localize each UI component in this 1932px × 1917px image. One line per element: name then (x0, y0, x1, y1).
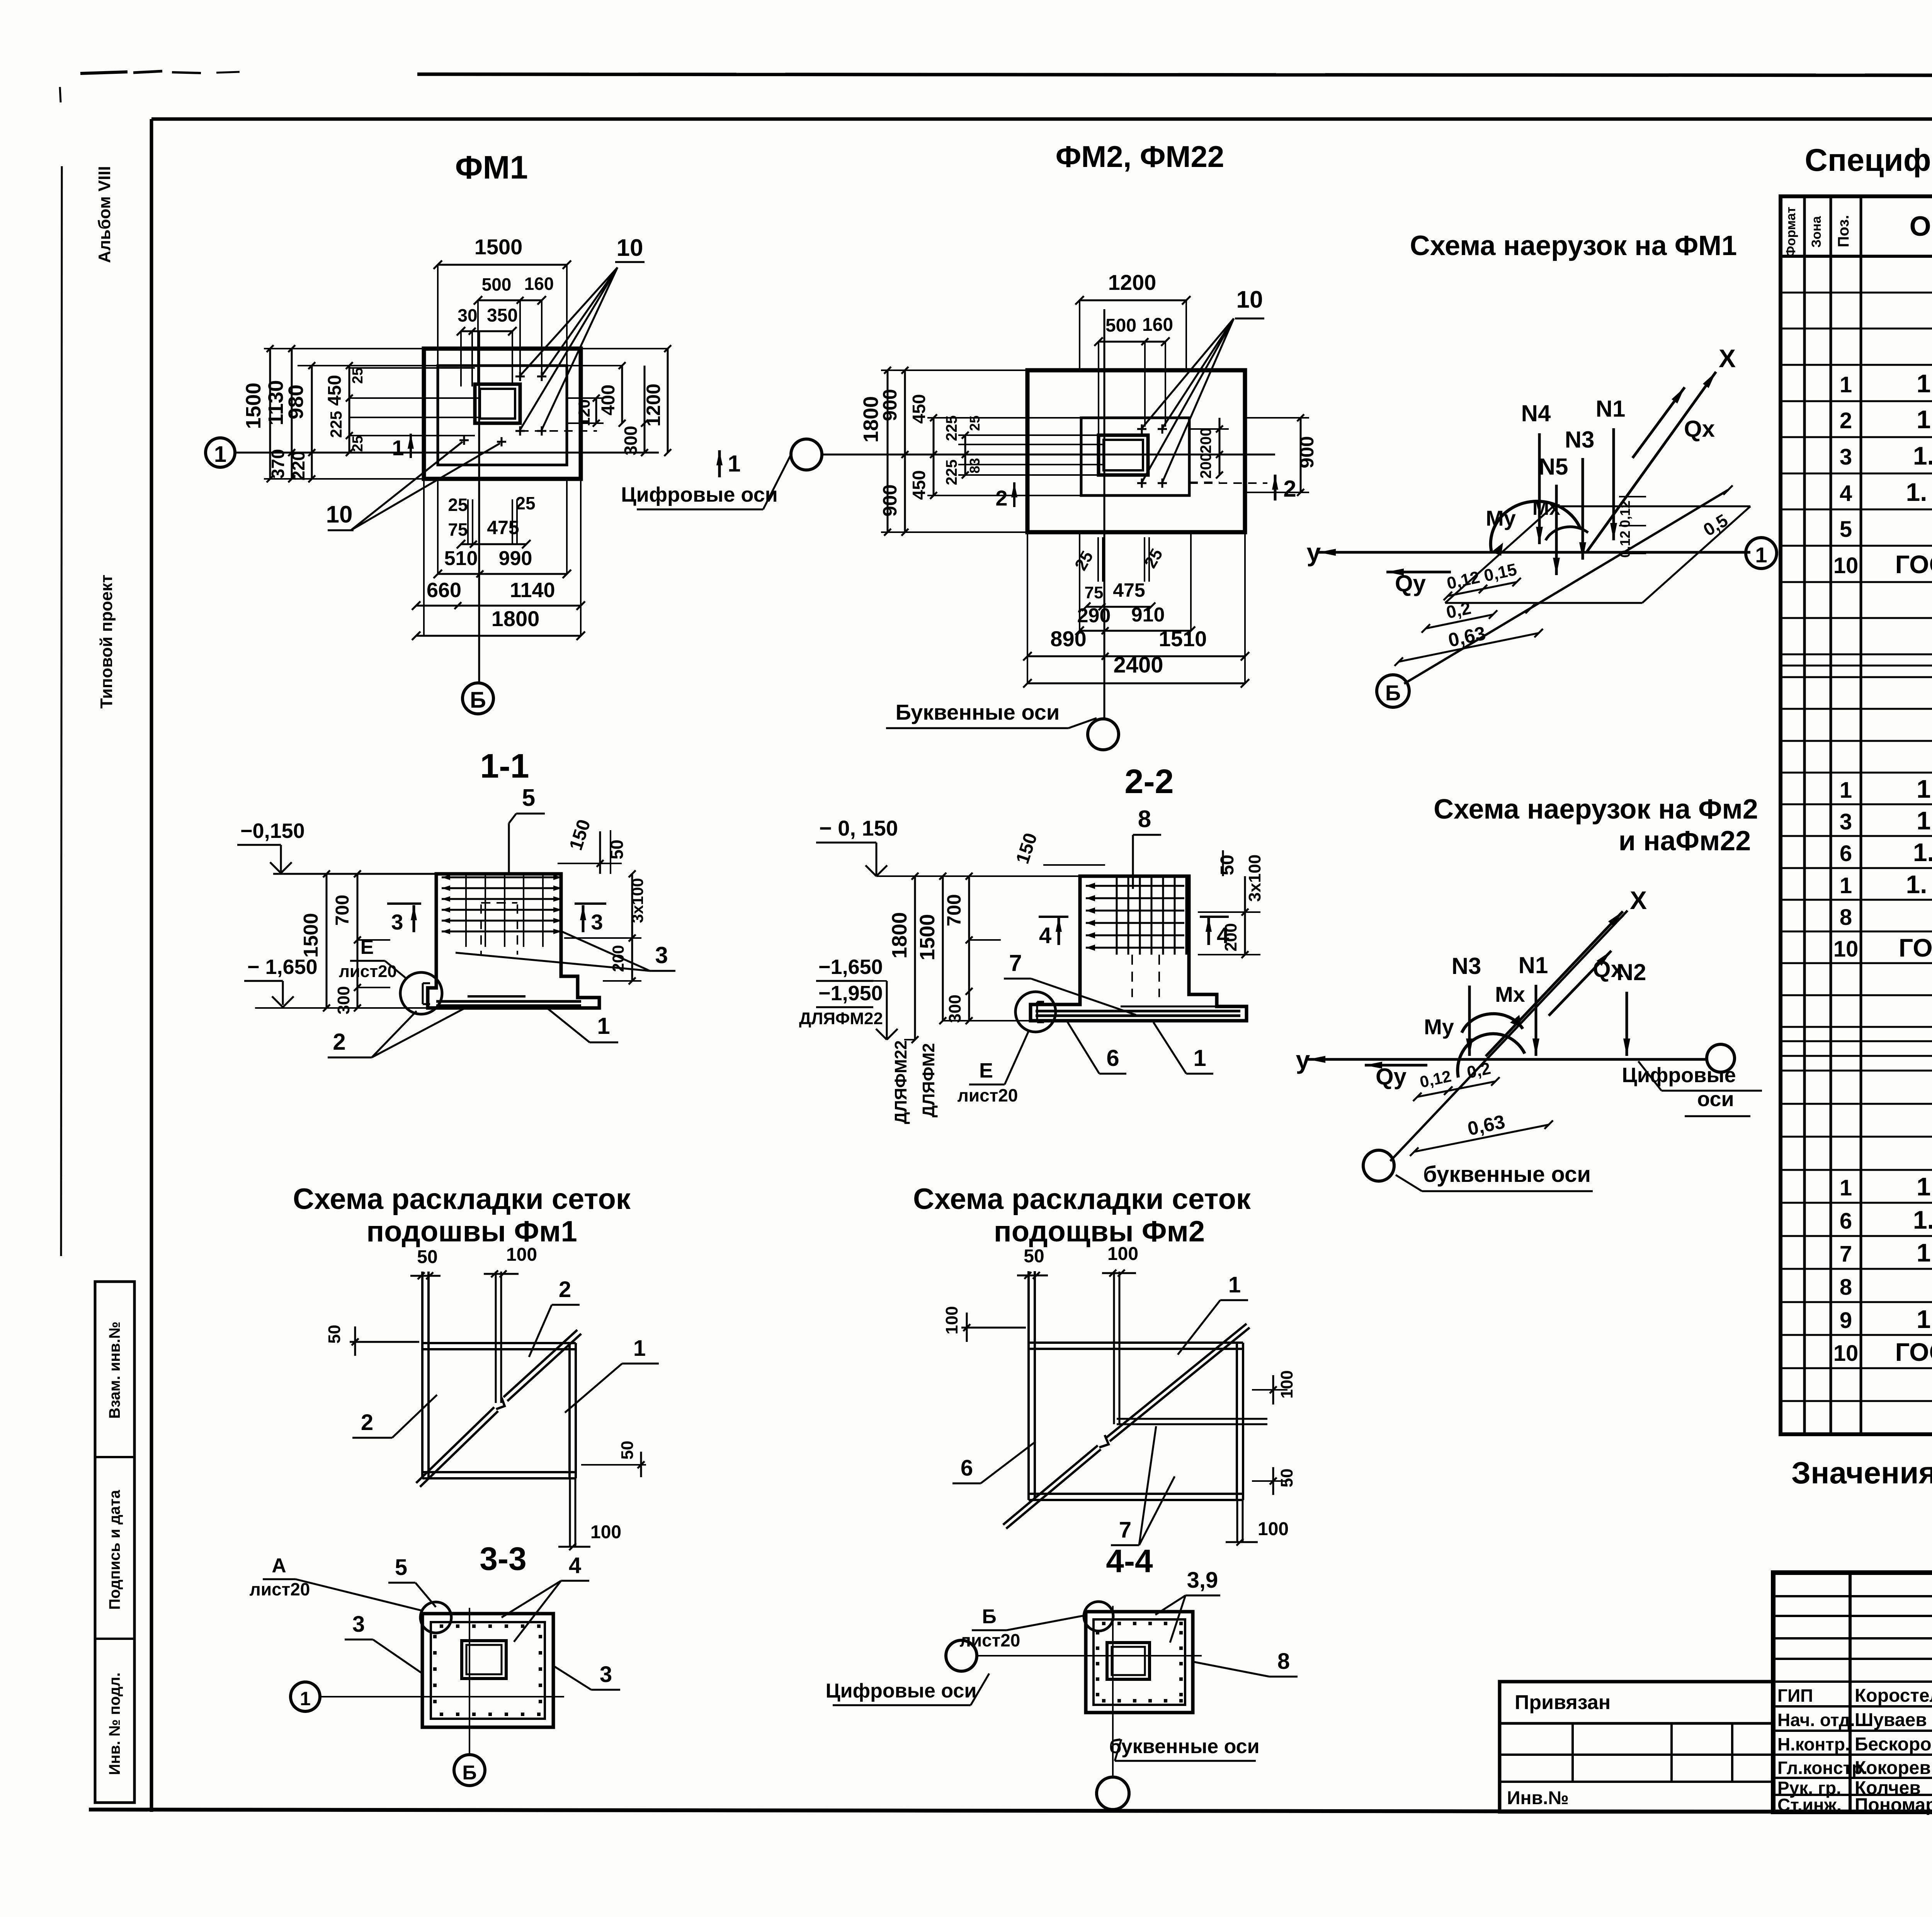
title block top grid rows (1773, 1595, 1932, 1597)
svg-text:225: 225 (327, 411, 345, 438)
svg-text:1.410-3 вып.1: 1.410-3 вып.1 (1917, 806, 1932, 835)
svg-text:6: 6 (1840, 1209, 1852, 1234)
bottom-left rotated stamp table (95, 1282, 134, 1803)
svg-text:−1,950: −1,950 (818, 982, 883, 1005)
svg-text:1: 1 (1840, 1175, 1852, 1200)
FM2 bottom dim 890 1510 (1027, 655, 1245, 657)
scheme1 Y axis line (1318, 551, 1750, 554)
mesh FM1 middle vertical bar (sheet 2) (495, 1272, 497, 1403)
svg-text:2: 2 (333, 1029, 345, 1055)
mesh FM2 diagonal bar (1006, 1449, 1101, 1529)
scheme1 force N4 (1538, 433, 1541, 544)
FM1 footing outer rect (424, 349, 581, 479)
svg-text:Альбом VIII: Альбом VIII (95, 166, 114, 263)
svg-text:450: 450 (909, 470, 929, 500)
svg-text:Шуваев: Шуваев (1855, 1710, 1927, 1730)
svg-text:1130: 1130 (264, 380, 287, 425)
FM2 left dims (887, 370, 889, 532)
mesh FM1 diagonal bar (420, 1411, 498, 1487)
mesh FM1 top dim 100 (484, 1273, 519, 1275)
svg-text:− 0, 150: − 0, 150 (819, 816, 898, 840)
svg-text:буквенные оси: буквенные оси (1109, 1735, 1259, 1758)
FM2 top dim 1200 (1080, 300, 1186, 301)
mesh FM1 left dim 50 (350, 1341, 419, 1343)
svg-text:1. 410-3 вып.1: 1. 410-3 вып.1 (1913, 1205, 1932, 1234)
svg-text:Б: Б (1385, 681, 1401, 705)
svg-text:Нач. отд.: Нач. отд. (1777, 1710, 1855, 1730)
FM1 bottom dim 660 1140 (416, 605, 581, 607)
scheme2 Qy arrow (1365, 1064, 1427, 1067)
section 2-2 dashed bars below (1131, 955, 1133, 997)
svg-text:1510: 1510 (1159, 627, 1207, 651)
scheme2 force N2 (1626, 992, 1628, 1056)
FM2 bottom dim 75 475 (1086, 606, 1151, 608)
scheme1 plot parallelogram lines (1553, 506, 1750, 507)
svg-text:Цифровые оси: Цифровые оси (621, 483, 778, 506)
svg-text:1: 1 (1228, 1272, 1241, 1297)
svg-text:200: 200 (1197, 428, 1214, 454)
svg-text:890: 890 (1050, 627, 1086, 651)
section 1-1 bottom mesh double lines (436, 1000, 581, 1003)
svg-text:510: 510 (444, 547, 478, 570)
svg-text:ФМ2, ФМ22: ФМ2, ФМ22 (1056, 140, 1225, 174)
section 3-3 vertical axis (469, 1608, 470, 1755)
svg-text:N3: N3 (1565, 427, 1595, 453)
section 2-2 cut marks 4 (1058, 917, 1060, 945)
svg-text:Цифровые оси: Цифровые оси (826, 1680, 977, 1702)
svg-text:лист20: лист20 (957, 1085, 1018, 1105)
FM1 bottom dim 510 990 (438, 573, 567, 575)
FM1 bottom dims 25 25 (467, 499, 469, 544)
FM1 footing inner step rect (438, 366, 567, 465)
svg-text:1: 1 (392, 436, 404, 460)
scheme1 force N1 (1612, 428, 1615, 540)
svg-text:1.410-3 вып.1: 1.410-3 вып.1 (1917, 1305, 1932, 1333)
svg-text:X: X (1719, 344, 1736, 373)
scheme2 Y axis (1308, 1058, 1708, 1061)
svg-text:980: 980 (284, 385, 308, 419)
svg-text:2400: 2400 (1113, 652, 1163, 678)
svg-text:Спецификация фундаментов Ф: Спецификация фундаментов ФМ1, ФМ2 ФМ22 (1805, 143, 1932, 178)
svg-text:6: 6 (1106, 1045, 1119, 1071)
FM2 bottom dims 25 25 (1097, 537, 1099, 582)
svg-text:2: 2 (1283, 476, 1296, 502)
svg-text:1. 410 - 3 вып.1: 1. 410 - 3 вып.1 (1906, 478, 1932, 506)
section 3-3 stud dots (440, 1624, 443, 1628)
svg-text:Схема раскладки сеток: Схема раскладки сеток (293, 1183, 631, 1216)
svg-text:220: 220 (288, 451, 308, 481)
svg-text:8: 8 (1277, 1649, 1290, 1674)
section 4-4 detail circle B (1084, 1602, 1113, 1631)
svg-text:N3: N3 (1452, 953, 1481, 979)
svg-text:N4: N4 (1521, 400, 1551, 426)
section 2-2 body outline (1031, 876, 1247, 1021)
FM1 axis circle 1 (206, 438, 235, 467)
svg-text:Привязан: Привязан (1515, 1691, 1611, 1714)
FM2 footing outer rect (1027, 370, 1245, 532)
mesh FM2 right dim 50 (1252, 1480, 1287, 1482)
signature rows (1773, 1705, 1932, 1708)
svg-text:7: 7 (1119, 1517, 1131, 1542)
svg-text:0,12: 0,12 (1617, 501, 1633, 528)
svg-text:1: 1 (214, 442, 226, 467)
svg-text:1. 410-3 вып.1: 1. 410-3 вып.1 (1913, 441, 1932, 470)
svg-text:9: 9 (1840, 1308, 1852, 1333)
svg-text:Схема наерузок на ФМ1: Схема наерузок на ФМ1 (1410, 230, 1737, 261)
svg-text:225: 225 (943, 460, 960, 485)
svg-text:3х100: 3х100 (628, 878, 646, 923)
mesh FM1 top dim 50 (410, 1275, 440, 1277)
FM2 column box (1099, 435, 1148, 475)
FM2 bottom dim 2400 (1027, 683, 1245, 684)
svg-text:660: 660 (427, 579, 461, 602)
svg-text:Б: Б (470, 688, 486, 713)
svg-text:1200: 1200 (643, 383, 664, 426)
FM1 left dims (269, 349, 271, 479)
svg-text:25: 25 (350, 368, 366, 384)
svg-text:50: 50 (618, 1441, 637, 1460)
mesh FM1 bottom dim 100 (569, 1478, 571, 1547)
FM2 vertical axis (1104, 309, 1105, 719)
svg-text:N2: N2 (1617, 959, 1646, 985)
scheme1 B circle (1377, 675, 1409, 707)
FM2 bottom axis circle (1088, 719, 1119, 750)
svg-text:3: 3 (352, 1612, 365, 1637)
svg-text:1500: 1500 (474, 235, 523, 259)
scheme2 dims (1417, 1081, 1495, 1097)
svg-text:50: 50 (1277, 1469, 1296, 1488)
svg-text:1.410- 3 вып.1: 1.410- 3 вып.1 (1913, 838, 1932, 867)
frame top line 1 (417, 74, 1932, 76)
FM1 axis circle B (463, 683, 493, 714)
svg-text:подощвы Фм2: подощвы Фм2 (994, 1215, 1205, 1248)
svg-text:1.410-3 вып.1: 1.410-3 вып.1 (1917, 1172, 1932, 1201)
svg-text:Гл.констр.: Гл.констр. (1777, 1758, 1867, 1778)
svg-text:7: 7 (1840, 1241, 1852, 1267)
title block outer (1773, 1573, 1932, 1812)
FM1 inner horizontal guide lines (349, 367, 475, 369)
svg-text:25: 25 (350, 436, 366, 452)
title block verticals (1849, 1573, 1852, 1812)
FM2 top dim 500 160 (1099, 341, 1165, 343)
section 2-2 bottom mesh lines (1036, 1010, 1240, 1013)
svg-text:3: 3 (600, 1662, 612, 1687)
svg-text:10: 10 (1833, 553, 1859, 578)
svg-text:50: 50 (1024, 1246, 1044, 1267)
spec table header row line (1781, 255, 1932, 258)
svg-text:1.410-3 вып.1: 1.410-3 вып.1 (1917, 405, 1932, 434)
frame top line 2 (151, 117, 1932, 121)
svg-text:3,9: 3,9 (1187, 1568, 1218, 1593)
svg-text:350: 350 (487, 305, 518, 326)
svg-text:75: 75 (448, 519, 468, 540)
svg-text:50: 50 (325, 1325, 344, 1344)
mesh FM2 inner vertical bar (1113, 1272, 1115, 1424)
svg-text:3: 3 (391, 910, 403, 934)
svg-text:7: 7 (1009, 950, 1022, 976)
svg-text:10: 10 (326, 501, 353, 528)
svg-text:8: 8 (1840, 905, 1852, 930)
svg-text:Схема наерузок на Фм2: Схема наерузок на Фм2 (1434, 794, 1758, 825)
svg-text:100: 100 (1107, 1244, 1138, 1264)
svg-text:700: 700 (332, 895, 353, 926)
svg-text:Цифровые: Цифровые (1622, 1064, 1736, 1087)
svg-text:3: 3 (655, 942, 668, 968)
svg-text:300: 300 (946, 994, 964, 1023)
svg-text:2: 2 (559, 1277, 571, 1302)
svg-text:990: 990 (499, 547, 532, 570)
mesh FM2 right dim 100 (1252, 1389, 1287, 1391)
svg-text:83: 83 (967, 458, 983, 473)
svg-text:50: 50 (1217, 855, 1238, 875)
svg-text:−1,650: −1,650 (818, 955, 883, 979)
svg-text:100: 100 (942, 1306, 961, 1334)
svg-text:290: 290 (1077, 604, 1111, 627)
section 2-2 detail circle E (1015, 992, 1056, 1032)
section 2-2 left dims 700 300 (968, 876, 970, 1021)
scheme1 Qy arrow (1386, 571, 1451, 574)
svg-text:у: у (1296, 1045, 1310, 1074)
svg-text:370: 370 (268, 449, 288, 479)
svg-text:160: 160 (524, 274, 554, 294)
svg-text:подошвы Фм1: подошвы Фм1 (366, 1215, 577, 1248)
frame bottom line (89, 1810, 1932, 1813)
scheme2 Qx arrow (1549, 951, 1611, 1016)
scheme2 My arc (1458, 1034, 1525, 1078)
svg-text:900: 900 (1296, 436, 1318, 468)
mesh FM2 rect (sheet 1) (1029, 1348, 1243, 1350)
svg-text:900: 900 (879, 389, 901, 421)
svg-text:Пономарев: Пономарев (1855, 1795, 1932, 1815)
svg-text:Типовой проект: Типовой проект (97, 575, 116, 709)
svg-text:4: 4 (569, 1553, 581, 1578)
svg-text:1500: 1500 (300, 913, 322, 958)
FM1 anchor bolt marks (515, 376, 525, 378)
FM2 axis circle left (791, 439, 822, 470)
svg-text:Взам. инв.№: Взам. инв.№ (106, 1321, 123, 1418)
svg-text:1: 1 (597, 1013, 610, 1039)
FM1 column box (475, 384, 520, 423)
svg-text:1: 1 (1840, 778, 1852, 803)
section 1-1 left dims 700 300 (357, 874, 359, 1008)
FM1 right section mark arrow 1 (718, 450, 721, 477)
svg-text:А: А (272, 1554, 286, 1577)
svg-text:− 1,650: − 1,650 (247, 955, 318, 979)
FM1 bottom dim 75 475 (461, 543, 526, 545)
svg-text:Е: Е (361, 936, 374, 958)
section 2-2 left dims 1800 1500 (914, 876, 916, 1040)
svg-text:Н.контр.: Н.контр. (1777, 1734, 1850, 1754)
FM2 anchor bolt marks (1137, 428, 1146, 430)
svg-text:ГОСТ 24379.1- 80: ГОСТ 24379.1- 80 (1895, 550, 1932, 579)
svg-text:Обозначение: Обозначение (1910, 211, 1932, 242)
scheme2 force N1 (1535, 985, 1537, 1056)
svg-text:Зона: Зона (1809, 216, 1824, 248)
svg-text:10: 10 (1833, 1341, 1859, 1366)
svg-text:8: 8 (1138, 806, 1151, 833)
svg-text:Поз.: Поз. (1835, 215, 1852, 247)
svg-text:ДЛЯФМ22: ДЛЯФМ22 (891, 1040, 910, 1124)
section 4-4 axis circle bottom (1097, 1777, 1129, 1810)
svg-text:3х100: 3х100 (1245, 855, 1264, 902)
svg-text:1: 1 (1840, 873, 1852, 898)
FM2 horizontal axis (822, 454, 1275, 456)
svg-text:1: 1 (1840, 372, 1852, 397)
svg-text:и наФм22: и наФм22 (1619, 826, 1751, 856)
svg-text:30: 30 (457, 305, 477, 325)
section 3-3 axis circle B bottom (454, 1755, 485, 1786)
svg-text:Му: Му (1486, 506, 1516, 530)
svg-text:10: 10 (1236, 286, 1263, 313)
svg-text:1: 1 (300, 1688, 311, 1709)
FM1 top dim 500 160 (478, 300, 542, 301)
section 4-4 outer rect (1086, 1612, 1193, 1713)
privyazan table (1500, 1682, 1773, 1812)
section 1-1 mesh vertical bars (465, 874, 467, 947)
svg-text:ДЛЯФМ22: ДЛЯФМ22 (799, 1009, 883, 1028)
section 3-3 column hole (462, 1641, 506, 1679)
scheme1 X axis arrow (1586, 372, 1716, 553)
svg-text:3-3: 3-3 (480, 1541, 526, 1577)
section 4-4 horizontal axis (977, 1655, 1202, 1657)
svg-text:75: 75 (1085, 583, 1104, 602)
svg-text:Му: Му (1424, 1015, 1454, 1039)
svg-text:1: 1 (728, 451, 740, 477)
svg-text:160: 160 (1142, 315, 1173, 335)
scheme1 My moment arc (1491, 501, 1580, 552)
scheme2 right circle (1707, 1044, 1735, 1072)
mesh FM2 top dim 100 (1102, 1272, 1136, 1274)
FM2 section mark 2 inside (1013, 482, 1015, 507)
svg-text:500: 500 (482, 274, 512, 295)
scheme2 diagonal axis (1390, 911, 1628, 1161)
svg-text:475: 475 (487, 517, 519, 538)
scheme2 force N3 (1468, 986, 1471, 1056)
svg-text:25: 25 (448, 495, 468, 515)
scheme1 diagonal axis to B (1404, 490, 1728, 684)
svg-text:ГИП: ГИП (1777, 1685, 1813, 1706)
FM1 section mark 1 inside plan (410, 434, 412, 458)
svg-text:50: 50 (607, 839, 627, 859)
section 1-1 left dim 1500 (326, 874, 328, 1008)
section 1-1 right dims 3x100 200 (631, 874, 633, 981)
svg-text:ДЛЯФМ2: ДЛЯФМ2 (919, 1043, 938, 1118)
section 1-1 top mesh bars (442, 877, 562, 878)
svg-text:Б: Б (462, 1762, 476, 1784)
svg-text:ФМ1: ФМ1 (455, 149, 528, 186)
svg-text:100: 100 (506, 1245, 537, 1265)
scheme1 Mx moment arc (1546, 527, 1588, 540)
svg-text:2: 2 (1840, 408, 1852, 433)
svg-text:ГОСТ 24379.1-80: ГОСТ 24379.1-80 (1899, 933, 1932, 962)
svg-text:6: 6 (961, 1456, 973, 1481)
FM2 footing inner step rect (1081, 418, 1189, 495)
svg-text:ГОСТ 24379. 1-80: ГОСТ 24379. 1-80 (1895, 1338, 1932, 1366)
svg-text:Бескоровайный: Бескоровайный (1855, 1734, 1932, 1755)
svg-text:100: 100 (1277, 1370, 1296, 1398)
section 3-3 outer rect (422, 1614, 553, 1727)
svg-text:Мх: Мх (1532, 497, 1560, 519)
svg-text:100: 100 (590, 1522, 621, 1542)
svg-text:буквенные оси: буквенные оси (1423, 1162, 1591, 1187)
svg-text:6: 6 (1840, 841, 1852, 866)
svg-text:Инв. № подл.: Инв. № подл. (106, 1672, 123, 1775)
svg-text:2-2: 2-2 (1124, 762, 1173, 800)
section 2-2 level lines left (876, 875, 1080, 877)
FM1 top dim 30 350 (461, 330, 512, 332)
svg-text:Буквенные оси: Буквенные оси (896, 700, 1060, 724)
FM2 right dims (1189, 428, 1229, 430)
FM2 bottom dim 290 910 (1080, 630, 1191, 632)
svg-text:25: 25 (515, 493, 535, 513)
svg-text:Е: Е (979, 1059, 993, 1082)
svg-text:2: 2 (361, 1410, 373, 1435)
svg-text:лист20: лист20 (339, 962, 397, 981)
mesh FM2 bottom dim 100 (1236, 1500, 1238, 1542)
svg-text:5: 5 (1840, 517, 1852, 542)
spec table column lines (1803, 196, 1806, 1434)
torn paper edge dashes top-left (80, 72, 128, 73)
FM1 horizontal axis line (235, 452, 659, 454)
svg-text:Б: Б (982, 1605, 996, 1628)
svg-text:700: 700 (943, 894, 965, 926)
section 3-3 axis circle left (291, 1682, 320, 1711)
svg-text:500: 500 (1105, 315, 1136, 336)
svg-text:Qx: Qx (1684, 416, 1715, 442)
mesh FM1 square (sheet 1) (422, 1348, 576, 1350)
scheme1 dims along diagonal (1448, 582, 1517, 596)
svg-text:475: 475 (1113, 579, 1145, 601)
svg-text:Кокорев: Кокорев (1855, 1758, 1931, 1778)
svg-text:4: 4 (1039, 923, 1051, 948)
svg-text:300: 300 (621, 426, 641, 456)
section 1-1 dashed embed (481, 902, 517, 904)
svg-text:50: 50 (417, 1247, 437, 1267)
svg-text:1-1: 1-1 (480, 747, 529, 785)
FM1 right dims (567, 397, 604, 399)
mesh FM2 left dim 100 (961, 1327, 1026, 1329)
svg-text:Формат: Формат (1784, 207, 1798, 257)
svg-text:900: 900 (879, 484, 901, 516)
svg-text:N1: N1 (1519, 952, 1548, 978)
section 3-3 horizontal axis (320, 1696, 564, 1697)
FM1 top dim 1500 (438, 264, 567, 266)
svg-text:1: 1 (1755, 543, 1767, 567)
frame left line (150, 119, 153, 1812)
scheme1 Qx arrow (1633, 387, 1685, 458)
svg-text:5: 5 (395, 1555, 407, 1580)
svg-text:Инв.№: Инв.№ (1507, 1788, 1569, 1808)
svg-text:3: 3 (1840, 809, 1852, 834)
section 4-4 axis circle left (946, 1640, 977, 1671)
scheme1 force N3 (1582, 458, 1584, 560)
svg-text:N5: N5 (1539, 454, 1568, 480)
svg-text:1. 410 - 3 вып.1: 1. 410 - 3 вып.1 (1906, 870, 1932, 899)
svg-text:1800: 1800 (492, 606, 540, 631)
section 1-1 cut marks 3 (413, 905, 415, 932)
svg-text:Значения усилий М, N, Q смо: Значения усилий М, N, Q смотреть на лист… (1791, 1456, 1932, 1490)
left margin vertical scan line (61, 166, 62, 1256)
svg-text:X: X (1630, 886, 1647, 914)
svg-text:400: 400 (598, 385, 619, 415)
svg-text:4-4: 4-4 (1106, 1543, 1153, 1579)
svg-text:2: 2 (995, 486, 1007, 510)
scheme1 force N5 (1555, 485, 1558, 575)
svg-text:3: 3 (1840, 444, 1852, 470)
scheme2 B circle bottom (1363, 1150, 1394, 1181)
svg-text:1: 1 (1193, 1045, 1206, 1071)
svg-text:Подпись и дата: Подпись и дата (106, 1490, 123, 1610)
